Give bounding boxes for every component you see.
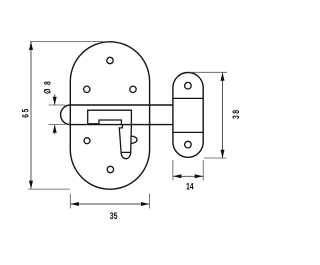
dim 38 line [222, 72, 224, 158]
dim 35 extension left [69, 194, 71, 209]
dim 35 extension right [149, 194, 151, 209]
dim diam8 line lower [54, 125, 56, 135]
bolt guide staple [88, 110, 132, 124]
dim 14 line [173, 175, 203, 177]
plate hole right [130, 86, 136, 92]
dim 14 arrow left [173, 174, 181, 178]
dim 65 arrow up [29, 42, 33, 50]
plate hole mid-left [84, 138, 90, 144]
dim 38 extension bottom [204, 157, 227, 159]
keeper hole top [185, 82, 192, 89]
main plate outline [70, 42, 149, 189]
dim 65 arrow down [29, 181, 33, 189]
handle knob [119, 125, 131, 159]
dim 14 extension left [172, 160, 174, 181]
dim 65 line [30, 42, 32, 189]
dim 14 extension right [202, 160, 204, 181]
svg-text:Ø8: Ø8 [42, 77, 52, 93]
keeper band top line [173, 97, 203, 99]
dim 38 arrow down [221, 150, 225, 158]
svg-text:14: 14 [186, 180, 194, 191]
dim 35 arrow left [70, 202, 78, 206]
plate hole bottom [107, 166, 113, 172]
dim 35 arrow right [141, 202, 149, 206]
dim diam8 line upper [54, 94, 56, 105]
keeper band bottom line [173, 131, 203, 133]
svg-text:35: 35 [110, 210, 118, 221]
keeper plate outline [173, 73, 203, 158]
handle side bump [131, 136, 137, 143]
dim 38 arrow up [221, 72, 225, 80]
plate hole left [84, 86, 90, 92]
svg-text:65: 65 [21, 107, 31, 118]
bolt bottom line [70, 124, 173, 126]
dim 65 extension line bottom [28, 188, 70, 190]
bolt top line [70, 104, 173, 106]
dim 14 arrow right [195, 174, 203, 178]
dim diam8 arrow down [53, 97, 57, 105]
dim 65 extension line top [30, 40, 103, 42]
plate hole top [107, 57, 113, 63]
dim diam8 extension bottom [49, 124, 66, 126]
dim diam8 arrow up [53, 125, 57, 133]
staple slot [99, 120, 121, 125]
keeper hole bottom [185, 141, 192, 148]
bolt left end cap [61, 105, 71, 125]
dim diam8 extension top [49, 104, 66, 106]
dim 38 extension top [190, 71, 227, 73]
svg-text:38: 38 [231, 109, 241, 120]
dim 35 line [71, 203, 150, 205]
